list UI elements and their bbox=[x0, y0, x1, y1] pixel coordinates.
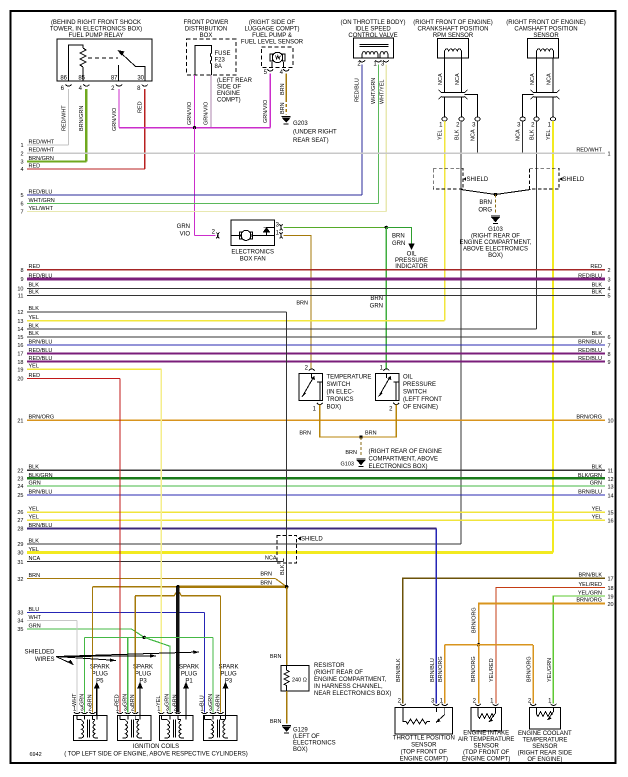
svg-text:15: 15 bbox=[17, 335, 23, 341]
title fuel pump and level sensor bbox=[241, 20, 304, 46]
svg-text:BRN: BRN bbox=[173, 694, 179, 706]
wire YEL/RED right 18 bbox=[496, 582, 614, 704]
svg-text:BRN/ORG: BRN/ORG bbox=[472, 607, 478, 633]
wire BRN/BLK right 17 bbox=[403, 572, 614, 703]
wire BRN dashed to G103 bbox=[360, 437, 362, 457]
ignition coils caption bbox=[64, 744, 248, 758]
svg-text:GRN: GRN bbox=[29, 623, 41, 629]
svg-text:BRN/BLU: BRN/BLU bbox=[29, 523, 53, 529]
svg-text:(BEHIND RIGHT FRONT SHOCK: (BEHIND RIGHT FRONT SHOCK bbox=[51, 20, 141, 26]
wire bus 32 BRN bbox=[17, 573, 275, 583]
svg-text:BLK: BLK bbox=[29, 290, 40, 296]
svg-text:1: 1 bbox=[608, 152, 611, 158]
wire YEL cam vertical bbox=[552, 121, 554, 553]
node BRN/GRN junction bbox=[385, 226, 388, 229]
svg-text:BLK/GRN: BLK/GRN bbox=[578, 473, 602, 479]
temperature switch box bbox=[299, 373, 323, 400]
svg-text:BRN/BLU: BRN/BLU bbox=[430, 658, 436, 682]
svg-text:BRN/ORG: BRN/ORG bbox=[576, 598, 602, 604]
svg-text:14: 14 bbox=[608, 493, 614, 499]
svg-text:BLK: BLK bbox=[29, 465, 40, 471]
node GRN junction bbox=[143, 636, 146, 639]
spark plug arrow coil 3 bbox=[183, 682, 189, 716]
wire bus 14 BLK bbox=[17, 323, 536, 333]
svg-text:ENGINE COMPT): ENGINE COMPT) bbox=[400, 757, 448, 763]
wire NCA cam pin3 vertical bbox=[522, 121, 524, 153]
svg-text:28: 28 bbox=[17, 527, 23, 533]
crank shield arrow bbox=[463, 177, 466, 181]
relay switch bbox=[88, 51, 145, 81]
air temp arrowhead bbox=[489, 718, 493, 722]
node BRN switches junction bbox=[359, 435, 362, 438]
coil 1 connector pins bbox=[74, 712, 96, 714]
idle valve pin numbers bbox=[357, 62, 385, 68]
svg-text:BLK: BLK bbox=[29, 306, 40, 312]
temperature switch pin numbers bbox=[305, 366, 317, 413]
svg-text:ENGINE COMPARTMENT,: ENGINE COMPARTMENT, bbox=[314, 677, 386, 683]
svg-text:SWITCH: SWITCH bbox=[403, 390, 427, 396]
svg-text:NCA: NCA bbox=[438, 73, 444, 85]
wire BLK thick to coil 3 bbox=[176, 587, 179, 713]
svg-text:(TOP FRONT OF: (TOP FRONT OF bbox=[463, 750, 510, 756]
svg-text:SPARK: SPARK bbox=[133, 665, 153, 671]
svg-text:BLK: BLK bbox=[29, 323, 40, 329]
wire BRN riser coil 2 bbox=[134, 596, 136, 713]
svg-text:TEMPERATURE: TEMPERATURE bbox=[522, 738, 567, 744]
wire bus 15 BLK bbox=[17, 331, 610, 341]
svg-text:GRN/VIO: GRN/VIO bbox=[204, 101, 210, 125]
wire BRN bus32 diagonal bbox=[276, 579, 287, 587]
svg-text:NCA: NCA bbox=[471, 129, 477, 141]
wire BRN riser coil 4 bbox=[220, 596, 222, 713]
svg-text:GRN: GRN bbox=[392, 241, 405, 247]
svg-text:5: 5 bbox=[608, 294, 611, 300]
ignition coil 2 bbox=[117, 716, 151, 741]
wire BRN/ORG dashed to G103 bbox=[495, 195, 497, 215]
crank pin numbers 1 2 3 bbox=[439, 123, 476, 129]
svg-text:4: 4 bbox=[20, 167, 23, 173]
TPS pin numbers bbox=[398, 699, 444, 705]
wire bus 27 YEL bbox=[17, 514, 613, 524]
svg-text:YEL: YEL bbox=[29, 547, 39, 553]
svg-text:(RIGHT FRONT OF ENGINE): (RIGHT FRONT OF ENGINE) bbox=[413, 20, 492, 26]
wire BRN fuel pump to ground bbox=[285, 74, 287, 115]
svg-text:NCA: NCA bbox=[455, 73, 461, 85]
coolant temperature sensor box bbox=[530, 708, 561, 730]
label BRN ORG bbox=[478, 200, 492, 214]
svg-text:AIR TEMPERATURE: AIR TEMPERATURE bbox=[458, 737, 514, 743]
wire bus 18 RED/BLU bbox=[17, 356, 610, 366]
svg-text:BRN: BRN bbox=[280, 102, 286, 114]
wire bus 33 BLU bbox=[17, 607, 204, 617]
fuse box F23 dashed bbox=[187, 39, 236, 75]
wire BRN/GRN from fan pin 3 bbox=[284, 226, 387, 228]
svg-text:YEL: YEL bbox=[592, 506, 602, 512]
svg-text:RED/BLU: RED/BLU bbox=[29, 356, 53, 362]
svg-text:BRN: BRN bbox=[260, 572, 272, 578]
cam shield dashed box bbox=[529, 168, 559, 189]
svg-text:PLUG: PLUG bbox=[220, 672, 237, 678]
ground G129 text bbox=[293, 728, 336, 754]
wire RED/BLU idle valve bbox=[361, 65, 363, 196]
wire bus 29 BLK bbox=[17, 538, 461, 548]
svg-text:PRESSURE: PRESSURE bbox=[403, 382, 436, 388]
label spark plug P1 coil 3 bbox=[179, 665, 199, 685]
coolant caption bbox=[518, 731, 573, 763]
wire BRN resistor to G129 bbox=[286, 691, 288, 723]
svg-text:BLU: BLU bbox=[29, 607, 40, 613]
wire GRN/VIO horizontal feed bbox=[119, 127, 270, 129]
svg-text:CRANKSHAFT POSITION: CRANKSHAFT POSITION bbox=[418, 27, 489, 33]
svg-text:8A: 8A bbox=[215, 64, 222, 70]
electronics box fan bbox=[231, 220, 275, 246]
svg-text:BLK: BLK bbox=[29, 331, 40, 337]
svg-text:(IN ELEC-: (IN ELEC- bbox=[327, 390, 354, 396]
svg-text:TEMPERATURE: TEMPERATURE bbox=[327, 375, 372, 381]
air temp sensor internals bbox=[478, 708, 496, 723]
svg-text:3: 3 bbox=[608, 277, 611, 283]
fan pin numbers bbox=[212, 223, 280, 237]
svg-text:YEL: YEL bbox=[29, 514, 39, 520]
wire RED/WHT relay 86 vertical bbox=[68, 89, 70, 145]
label SHIELD lower bbox=[301, 537, 323, 543]
wire BRN/ORG right 20 bbox=[479, 598, 614, 645]
wire BRN from fan pin 1 bbox=[284, 235, 312, 368]
wire GRN diagonal to coil 3 bbox=[144, 637, 170, 712]
cam pin circles bbox=[520, 117, 556, 121]
svg-text:BRN/BLK: BRN/BLK bbox=[396, 658, 402, 682]
svg-text:PLUG: PLUG bbox=[181, 672, 198, 678]
svg-text:240 Ω: 240 Ω bbox=[292, 678, 307, 684]
wire BRN temp switch to ground bbox=[320, 405, 361, 438]
svg-text:18: 18 bbox=[17, 360, 23, 366]
svg-text:YEL/GRN: YEL/GRN bbox=[578, 590, 602, 596]
label SHIELD crank bbox=[467, 177, 489, 183]
svg-text:GRN/VIO: GRN/VIO bbox=[263, 99, 269, 123]
ground G203 label bbox=[293, 121, 337, 144]
svg-text:9: 9 bbox=[608, 360, 611, 366]
relay connector pins bbox=[66, 85, 148, 87]
wire GRN/VIO fuse right leg bbox=[210, 75, 212, 128]
fuel pump dashed box bbox=[262, 47, 293, 67]
wire bus 20 RED bbox=[17, 373, 120, 383]
svg-text:PRESSURE: PRESSURE bbox=[395, 258, 428, 264]
svg-text:3: 3 bbox=[20, 160, 23, 166]
svg-text:BRN: BRN bbox=[392, 234, 405, 240]
svg-text:35: 35 bbox=[17, 627, 23, 633]
svg-text:RED: RED bbox=[29, 264, 41, 270]
svg-text:G103: G103 bbox=[488, 227, 503, 233]
svg-text:GRN: GRN bbox=[370, 304, 383, 310]
fuse value label bbox=[215, 51, 231, 70]
svg-text:THROTTLE POSITION: THROTTLE POSITION bbox=[393, 736, 455, 742]
svg-text:21: 21 bbox=[17, 419, 23, 425]
svg-text:2: 2 bbox=[608, 268, 611, 274]
coil 3 pin numbers bbox=[157, 707, 178, 713]
svg-text:P1: P1 bbox=[185, 679, 193, 685]
cam inline connector bbox=[523, 90, 560, 117]
wire bus 34 WHT bbox=[17, 615, 77, 625]
svg-text:34: 34 bbox=[17, 619, 23, 625]
coil 1 pin numbers bbox=[73, 707, 93, 713]
wire GRN/VIO fuel pump vertical bbox=[269, 74, 271, 128]
svg-text:8: 8 bbox=[20, 268, 23, 274]
svg-text:COMPARTMENT, ABOVE: COMPARTMENT, ABOVE bbox=[369, 457, 438, 463]
svg-text:5: 5 bbox=[20, 193, 23, 199]
wire bus 11 BLK bbox=[18, 290, 611, 300]
svg-text:BRN: BRN bbox=[270, 654, 282, 660]
wire BRN thick feeder bbox=[178, 585, 287, 588]
cam shield arrow bbox=[559, 177, 562, 181]
spark plug arrow coil 2 bbox=[137, 682, 143, 716]
svg-text:YEL: YEL bbox=[592, 514, 602, 520]
crank pin circles bbox=[442, 117, 480, 121]
ignition coil 3 bbox=[159, 716, 193, 741]
coolant connector pins bbox=[530, 704, 556, 706]
air temp caption bbox=[458, 731, 514, 763]
wire bus 13 YEL bbox=[17, 315, 444, 325]
wire GRN bus35 diagonal bbox=[132, 629, 145, 637]
svg-text:ENGINE: ENGINE bbox=[217, 91, 240, 97]
coil 2 connector pins bbox=[117, 712, 138, 714]
svg-text:TOWER, IN ELECTRONICS BOX): TOWER, IN ELECTRONICS BOX) bbox=[50, 27, 142, 33]
svg-text:6: 6 bbox=[608, 335, 611, 341]
svg-text:11: 11 bbox=[608, 469, 614, 475]
shield drain wires to G103 bbox=[461, 190, 531, 195]
svg-text:FRONT POWER: FRONT POWER bbox=[184, 20, 230, 26]
wire BRN/GRN relay 85 vertical bbox=[85, 89, 87, 162]
shield lower arrow bbox=[298, 537, 301, 541]
label GRN VIO at fan bbox=[177, 224, 191, 238]
svg-text:SPARK: SPARK bbox=[219, 665, 239, 671]
svg-text:RED/BLU: RED/BLU bbox=[355, 78, 361, 102]
svg-text:SENSOR: SENSOR bbox=[411, 743, 437, 749]
svg-text:ORG: ORG bbox=[478, 208, 492, 214]
svg-text:( TOP LEFT SIDE OF ENGINE, ABO: ( TOP LEFT SIDE OF ENGINE, ABOVE RESPECT… bbox=[64, 752, 248, 758]
wire WHT/GRN idle valve bbox=[377, 65, 379, 204]
svg-text:YEL/RED: YEL/RED bbox=[489, 658, 495, 682]
label SHIELDED WIRES bbox=[24, 650, 55, 664]
svg-text:FUEL PUMP &: FUEL PUMP & bbox=[252, 33, 292, 39]
svg-text:ABOVE ELECTRONICS: ABOVE ELECTRONICS bbox=[463, 247, 528, 253]
coil 4 connector pins bbox=[202, 712, 224, 714]
oil pressure switch text bbox=[403, 375, 442, 411]
svg-text:COMPT): COMPT) bbox=[217, 98, 241, 104]
temperature switch connector pins bbox=[309, 369, 323, 405]
diode in fan bbox=[264, 227, 270, 232]
wire GRN/VIO fuse left leg bbox=[194, 75, 196, 128]
svg-text:12: 12 bbox=[17, 310, 23, 316]
svg-text:(LEFT OF: (LEFT OF bbox=[293, 734, 320, 740]
ignition coil 4 bbox=[203, 716, 237, 741]
wire bus 16 BRN/BLU bbox=[17, 339, 610, 349]
wire BLK cam vertical bbox=[536, 121, 538, 329]
crank shield dashed box bbox=[433, 168, 463, 189]
svg-text:RED/BLU: RED/BLU bbox=[578, 273, 602, 279]
svg-text:BRN: BRN bbox=[479, 200, 492, 206]
svg-text:GRN: GRN bbox=[29, 480, 41, 486]
svg-text:32: 32 bbox=[17, 577, 23, 583]
svg-text:BRN: BRN bbox=[270, 719, 282, 725]
wire bus 8 RED bbox=[20, 264, 610, 274]
svg-text:(RIGHT FRONT OF ENGINE): (RIGHT FRONT OF ENGINE) bbox=[506, 20, 585, 26]
svg-text:GRN/VIO: GRN/VIO bbox=[187, 101, 193, 125]
svg-text:NCA: NCA bbox=[265, 556, 277, 562]
oil pressure indicator arrow bbox=[408, 244, 414, 251]
svg-text:G203: G203 bbox=[293, 121, 308, 127]
svg-text:BRN: BRN bbox=[370, 296, 383, 302]
svg-text:SENSOR: SENSOR bbox=[532, 744, 558, 750]
svg-text:(RIGHT REAR SIDE: (RIGHT REAR SIDE bbox=[518, 751, 573, 757]
svg-text:SIDE OF: SIDE OF bbox=[217, 85, 241, 91]
svg-text:GRN/VIO: GRN/VIO bbox=[112, 107, 118, 131]
wire GRN riser coil 1 bbox=[84, 637, 86, 712]
svg-text:7: 7 bbox=[20, 210, 23, 216]
svg-text:G103: G103 bbox=[341, 462, 354, 468]
svg-text:DISTRIBUTION: DISTRIBUTION bbox=[185, 27, 227, 33]
ground G129 symbol bbox=[282, 726, 291, 734]
svg-text:87: 87 bbox=[111, 76, 118, 82]
svg-text:8: 8 bbox=[608, 352, 611, 358]
svg-text:FUSE: FUSE bbox=[215, 51, 231, 57]
svg-text:BLK: BLK bbox=[592, 331, 603, 337]
label spark plug P5 coil 1 bbox=[90, 665, 110, 685]
fan connector pins bbox=[216, 224, 283, 238]
oil pressure switch pin numbers bbox=[380, 366, 394, 413]
crank inline connector bbox=[439, 90, 478, 117]
svg-text:SPARK: SPARK bbox=[179, 665, 199, 671]
svg-text:RED/BLU: RED/BLU bbox=[29, 273, 53, 279]
svg-text:6: 6 bbox=[20, 202, 23, 208]
wire NCA crank pin3 vertical bbox=[477, 121, 479, 153]
svg-text:BRN: BRN bbox=[365, 431, 377, 437]
svg-text:86: 86 bbox=[60, 76, 67, 82]
fuel pump motor symbol bbox=[270, 52, 285, 67]
crankshaft position sensor box bbox=[438, 39, 469, 59]
svg-text:19: 19 bbox=[17, 367, 23, 373]
svg-text:ELECTRONICS BOX): ELECTRONICS BOX) bbox=[369, 464, 428, 470]
label spark plug P3 coil 2 bbox=[133, 665, 153, 685]
svg-text:YEL: YEL bbox=[29, 315, 39, 321]
svg-text:OF ENGINE): OF ENGINE) bbox=[527, 757, 562, 763]
TPS connector pins bbox=[400, 704, 448, 706]
svg-text:BRN/GRN: BRN/GRN bbox=[79, 106, 85, 131]
spark plug arrow coil 1 bbox=[94, 682, 100, 716]
svg-text:33: 33 bbox=[17, 611, 23, 617]
svg-text:BLK: BLK bbox=[592, 290, 603, 296]
svg-text:IGNITION COILS: IGNITION COILS bbox=[133, 744, 179, 750]
svg-text:BRN: BRN bbox=[296, 301, 308, 307]
svg-text:NCA: NCA bbox=[516, 129, 522, 141]
svg-text:26: 26 bbox=[17, 510, 23, 516]
svg-text:13: 13 bbox=[17, 319, 23, 325]
TPS wiper arrowhead bbox=[436, 719, 441, 723]
wire BLK crank vertical bbox=[460, 121, 462, 544]
svg-text:9: 9 bbox=[20, 277, 23, 283]
node shield drain junction bbox=[494, 193, 497, 196]
svg-text:BLK/GRN: BLK/GRN bbox=[29, 473, 53, 479]
svg-text:15: 15 bbox=[608, 510, 614, 516]
svg-text:IN HARNESS CHANNEL,: IN HARNESS CHANNEL, bbox=[314, 684, 383, 690]
svg-text:31: 31 bbox=[17, 560, 23, 566]
svg-text:YEL/WHT: YEL/WHT bbox=[29, 206, 54, 212]
svg-text:SWITCH: SWITCH bbox=[327, 382, 351, 388]
idle valve windings bbox=[360, 45, 389, 58]
svg-text:G129: G129 bbox=[293, 728, 308, 734]
relay terminal labels bbox=[60, 76, 144, 82]
svg-text:RED/WHT: RED/WHT bbox=[29, 148, 55, 154]
crank sensor leads bbox=[445, 58, 462, 92]
ground G103 symbol lower bbox=[357, 459, 366, 467]
svg-text:BRN/ORG: BRN/ORG bbox=[526, 656, 532, 682]
fuel pump connector pins bbox=[267, 69, 289, 71]
coolant sensor internals bbox=[537, 708, 554, 721]
wire YEL crank vertical bbox=[444, 121, 446, 321]
svg-text:RED/BLU: RED/BLU bbox=[578, 356, 602, 362]
svg-text:NCA: NCA bbox=[547, 73, 553, 85]
wire GRN distribution horizontal bbox=[85, 636, 214, 638]
shielded wires arrowheads bbox=[68, 650, 199, 664]
svg-text:LUGGAGE COMPT): LUGGAGE COMPT) bbox=[244, 27, 299, 33]
svg-text:OF ENGINE): OF ENGINE) bbox=[403, 405, 438, 411]
svg-text:12: 12 bbox=[608, 477, 614, 483]
air temp pin numbers bbox=[473, 699, 495, 705]
ground G103 text bbox=[459, 227, 531, 259]
wire BRN/GRN to oil pressure indicator bbox=[386, 227, 411, 243]
svg-text:PLUG: PLUG bbox=[135, 672, 152, 678]
wire bus 2 RED/WHT bbox=[20, 148, 610, 158]
wire GRN/VIO into fan bbox=[195, 234, 216, 236]
coil 2 pin numbers bbox=[116, 707, 135, 713]
svg-text:17: 17 bbox=[17, 352, 23, 358]
wire RED riser to coil 2 bbox=[119, 379, 121, 713]
svg-text:16: 16 bbox=[17, 343, 23, 349]
svg-text:YEL: YEL bbox=[29, 364, 39, 370]
svg-text:BLK: BLK bbox=[29, 538, 40, 544]
resistor element bbox=[284, 666, 289, 691]
wire BLU riser to coil 4 bbox=[204, 612, 206, 712]
TPS internals bbox=[403, 708, 445, 725]
svg-text:F23: F23 bbox=[215, 58, 226, 64]
TPS caption bbox=[393, 736, 455, 763]
idle speed control valve box bbox=[354, 38, 394, 58]
svg-text:BRN/BLU: BRN/BLU bbox=[29, 339, 53, 345]
wire bus 5 RED/BLU bbox=[20, 189, 362, 199]
wire BRN second feeder with bridge bbox=[135, 590, 220, 596]
svg-text:BRN/ORG: BRN/ORG bbox=[471, 656, 477, 682]
svg-text:OIL: OIL bbox=[407, 252, 417, 258]
temperature switch lever arrow bbox=[311, 376, 315, 380]
cam pin numbers 3 2 1 bbox=[517, 123, 552, 129]
oil pressure indicator text bbox=[395, 252, 428, 271]
coolant pin numbers bbox=[528, 699, 552, 705]
svg-text:GRN: GRN bbox=[177, 224, 190, 230]
svg-text:RED/BLU: RED/BLU bbox=[578, 348, 602, 354]
svg-text:BOX): BOX) bbox=[293, 747, 308, 753]
svg-text:BOX FAN: BOX FAN bbox=[240, 257, 266, 263]
oil pressure switch connector pins bbox=[383, 369, 399, 405]
svg-text:(RIGHT REAR OF: (RIGHT REAR OF bbox=[471, 234, 520, 240]
svg-text:BLK: BLK bbox=[530, 129, 536, 140]
svg-text:27: 27 bbox=[17, 518, 23, 524]
svg-text:20: 20 bbox=[17, 377, 23, 383]
svg-text:ELECTRONICS: ELECTRONICS bbox=[231, 250, 274, 256]
svg-text:10: 10 bbox=[608, 419, 614, 425]
shielded wires arrows bbox=[56, 652, 199, 665]
svg-text:BLK: BLK bbox=[455, 129, 461, 140]
svg-text:4: 4 bbox=[608, 287, 611, 293]
fuel pump pin numbers bbox=[264, 70, 284, 76]
